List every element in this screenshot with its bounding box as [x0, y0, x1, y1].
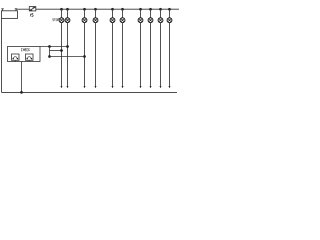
wire drop L1 bottom: [61, 23, 63, 87]
node bus junction L9: [159, 8, 162, 11]
ground arrow L9: [160, 86, 162, 88]
wire battery positive feed: [16, 8, 29, 10]
wire cluster vertical: [49, 47, 51, 57]
lamp L5: [110, 18, 115, 23]
node junction L2 tap: [66, 45, 69, 48]
ground arrow L6: [122, 86, 124, 88]
wire top supply bus: [36, 8, 179, 10]
wire drop L3 top: [84, 9, 86, 18]
node junction cluster bottom: [48, 55, 51, 58]
node bus junction L10: [168, 8, 171, 11]
node junction cluster top: [48, 45, 51, 48]
lamp L7: [138, 18, 143, 23]
wire drop L9 bottom: [160, 23, 162, 87]
check unit U1: [8, 47, 41, 62]
lamp L10: [167, 18, 172, 23]
ground arrow L7: [140, 86, 142, 88]
wire drop L4 top: [95, 9, 97, 18]
pushbutton S1: [12, 54, 20, 62]
ground arrow L5: [112, 86, 114, 88]
ground arrow L8: [150, 86, 152, 88]
pushbutton S2: [26, 54, 34, 62]
wire check output B (to lamp L1): [50, 50, 62, 52]
wire check ground drop: [21, 62, 23, 93]
ground arrow L10: [169, 86, 171, 88]
node junction L1 tap: [60, 49, 63, 52]
lamp L8: [148, 18, 153, 23]
wire drop L9 top: [160, 9, 162, 18]
wire check output A (to lamp L2): [40, 46, 68, 48]
label CHECK: [21, 48, 30, 51]
lamp L1: [59, 18, 64, 23]
lamp L3: [82, 18, 87, 23]
lamp L4: [93, 18, 98, 23]
node bus junction L5: [111, 8, 114, 11]
battery G1: [1, 9, 17, 19]
wire drop L6 bottom: [122, 23, 124, 87]
label STOP: [53, 19, 60, 22]
wire check output C (to lamp L3): [50, 56, 85, 58]
ground arrow L3: [84, 86, 86, 88]
wire drop L7 bottom: [140, 23, 142, 87]
wire drop L4 bottom: [95, 23, 97, 87]
label fuse value 15: [30, 14, 33, 17]
node bus junction L2: [66, 8, 69, 11]
ground arrow L4: [95, 86, 97, 88]
wire ground bus (chassis): [2, 91, 178, 93]
lamp L2: [65, 18, 70, 23]
ground arrow L1: [61, 86, 63, 88]
wire drop L8 top: [150, 9, 152, 18]
wire drop L10 bottom: [169, 23, 171, 87]
wire battery negative drop: [1, 18, 3, 92]
wire drop L7 top: [140, 9, 142, 18]
node bus junction L6: [121, 8, 124, 11]
wire drop L5 bottom: [112, 23, 114, 87]
node check ground junction: [20, 91, 23, 94]
node junction L3 tap: [83, 55, 86, 58]
wire drop L5 top: [112, 9, 114, 18]
node bus junction L1: [60, 8, 63, 11]
lamp L9: [158, 18, 163, 23]
wire drop L2 bottom: [67, 23, 69, 87]
ground arrow L2: [67, 86, 69, 88]
wire drop L6 top: [122, 9, 124, 18]
wire drop L3 bottom: [84, 23, 86, 87]
wire drop L10 top: [169, 9, 171, 18]
fuse F1: [29, 7, 36, 11]
lamp L6: [120, 18, 125, 23]
wire drop L2 top: [67, 9, 69, 18]
node bus junction L8: [149, 8, 152, 11]
wire drop L8 bottom: [150, 23, 152, 87]
node bus junction L7: [139, 8, 142, 11]
node bus junction L3: [83, 8, 86, 11]
wire drop L1 top: [61, 9, 63, 18]
node bus junction L4: [94, 8, 97, 11]
lamp columns: [59, 8, 172, 88]
